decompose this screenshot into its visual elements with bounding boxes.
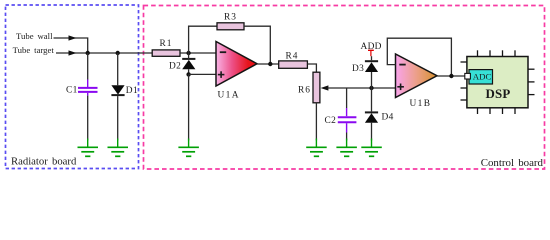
capacitor C2 xyxy=(338,117,357,122)
svg-text:D4: D4 xyxy=(382,113,394,123)
U1B plus marking xyxy=(397,84,404,91)
junction dot C (R1 out / D2 / feedback) xyxy=(186,51,190,55)
svg-text:R6: R6 xyxy=(298,86,311,96)
junction dot E (U1A output node) xyxy=(268,62,272,66)
feedback wire up from R1 node xyxy=(189,26,217,53)
wire Tube wall xyxy=(54,38,88,53)
wire R6 bottom to ground xyxy=(315,103,317,141)
wire R4 to R6 top xyxy=(307,64,316,72)
U1B minus marking xyxy=(399,64,405,66)
wire ADD to D3 xyxy=(371,56,373,60)
svg-text:U1B: U1B xyxy=(410,99,432,109)
wire R1 to U1A minus input xyxy=(180,52,216,54)
junction dot A (tube wall joins target) xyxy=(86,51,90,55)
potentiometer R6 body xyxy=(313,72,320,103)
svg-text:Tube wall: Tube wall xyxy=(16,31,53,41)
DSP left pins xyxy=(461,62,467,100)
capacitor C1 xyxy=(78,88,98,92)
ground below R6 xyxy=(306,139,327,157)
wire C1 top stem xyxy=(87,53,89,80)
DSP bottom pins xyxy=(478,108,516,114)
svg-text:C2: C2 xyxy=(325,116,337,126)
svg-text:R4: R4 xyxy=(286,51,299,61)
arrowhead on Tube wall wire xyxy=(69,35,77,40)
wire node to D1 branch xyxy=(88,52,118,54)
wire plus node down to ground xyxy=(188,74,190,140)
ADC input port square xyxy=(465,73,471,79)
ground below C2 xyxy=(336,139,357,157)
resistor R4 xyxy=(279,61,308,68)
DSP right pins xyxy=(528,69,535,94)
wire C1 bottom stem lower xyxy=(87,96,89,141)
junction dot D (D2 anode / plus input) xyxy=(186,72,190,76)
wire D1 branch to R1 xyxy=(118,52,153,54)
wire C2 top stem xyxy=(346,88,348,108)
DSP top pins xyxy=(478,50,516,56)
wire D2 anode to plus node xyxy=(188,69,190,74)
svg-text:Tube target: Tube target xyxy=(13,45,55,55)
svg-text:ADC: ADC xyxy=(473,72,492,82)
junction dot G (D3 D4 branch) xyxy=(369,86,373,90)
wire U1A output row xyxy=(257,63,279,65)
wire node down to D4 xyxy=(371,88,373,111)
svg-text:Control board: Control board xyxy=(481,157,544,169)
wire D4 anode to ground xyxy=(371,123,373,141)
diode D4 xyxy=(365,112,378,122)
svg-text:U1A: U1A xyxy=(218,91,240,101)
op-amp U1A xyxy=(216,42,257,87)
wire C2 bottom stem xyxy=(346,123,348,132)
resistor R3 xyxy=(217,23,244,30)
U1A minus marking xyxy=(220,51,226,53)
wiper wire to U1B plus input xyxy=(328,87,396,89)
svg-text:D1: D1 xyxy=(126,86,138,96)
capacitor C1 purple top lead xyxy=(87,80,89,88)
ground below D1 xyxy=(108,139,129,157)
ground below C1 xyxy=(78,139,99,157)
svg-text:D2: D2 xyxy=(169,62,181,72)
op-amp U1B xyxy=(396,54,438,98)
power ADD red tick xyxy=(368,50,374,56)
wire R3 to output node xyxy=(244,26,270,64)
svg-text:Radiator board: Radiator board xyxy=(11,156,77,168)
ground below D4 xyxy=(361,139,382,157)
ADC block xyxy=(469,70,493,84)
arrowhead on Tube target wire xyxy=(69,50,77,55)
wire U1B output to ADC port xyxy=(437,75,465,77)
svg-text:R3: R3 xyxy=(224,12,237,22)
ground below D2 xyxy=(178,139,199,157)
R6 wiper arrowhead xyxy=(321,85,329,90)
diode D1 xyxy=(111,85,124,95)
junction dot H (U1B output node) xyxy=(449,74,453,78)
wire D1 bottom stem xyxy=(117,96,119,140)
svg-text:D3: D3 xyxy=(352,64,364,74)
wire C2 bottom stem lower xyxy=(346,133,348,141)
resistor R1 xyxy=(152,50,180,56)
svg-text:R1: R1 xyxy=(160,39,173,49)
svg-text:C1: C1 xyxy=(66,86,78,96)
diode D2 xyxy=(182,59,195,69)
wire D1 top stem xyxy=(117,53,119,85)
Control board enclosure xyxy=(144,6,545,170)
wire D2 top stem xyxy=(188,53,190,59)
Radiator board enclosure xyxy=(6,5,139,169)
diode D3 xyxy=(365,61,378,72)
capacitor C2 purple top lead xyxy=(346,108,348,116)
junction dot B (D1 branch) xyxy=(116,51,120,55)
svg-text:DSP: DSP xyxy=(486,87,511,101)
U1A plus marking xyxy=(218,71,225,78)
wire D3 anode down to node xyxy=(371,72,373,88)
wire Tube target xyxy=(56,52,88,54)
wire C1 bottom stem xyxy=(87,93,89,96)
U1B feedback loop wire xyxy=(387,38,451,76)
DSP chip body xyxy=(467,57,528,108)
wire to U1A plus input xyxy=(189,73,216,75)
